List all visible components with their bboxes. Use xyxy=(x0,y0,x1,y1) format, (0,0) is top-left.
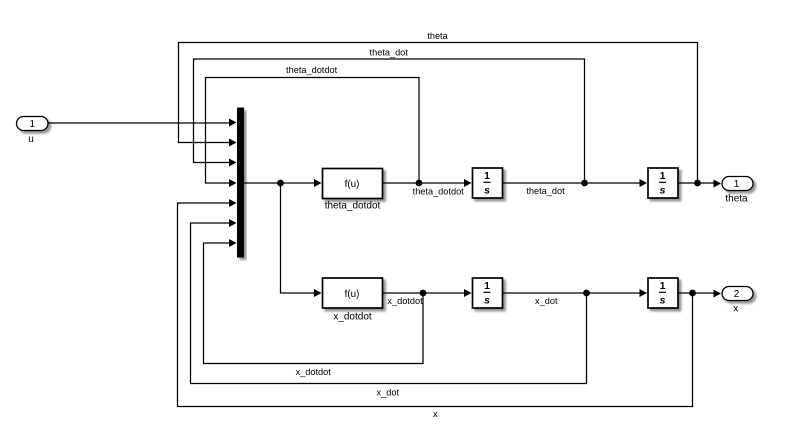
svg-text:theta_dotdot: theta_dotdot xyxy=(286,65,338,75)
svg-text:theta: theta xyxy=(427,31,448,41)
svg-text:x_dotdot: x_dotdot xyxy=(387,296,423,306)
arrowhead into integrator1 xyxy=(464,179,472,187)
output port Out2 xyxy=(722,287,753,301)
svg-text:1: 1 xyxy=(660,280,666,292)
arrowhead mux input 7 xyxy=(229,239,237,247)
arrowhead mux input 6 xyxy=(229,219,237,227)
junction dot node theta_dotdot xyxy=(416,180,423,187)
wire u to mux xyxy=(49,122,231,124)
wire theta_dotdot feedback xyxy=(206,78,420,184)
mux block xyxy=(237,108,244,258)
arrowhead into out2 xyxy=(714,290,722,298)
junction dot node x xyxy=(689,290,696,297)
arrowhead into out1 xyxy=(714,180,722,188)
junction dot mux output branch xyxy=(277,180,284,187)
arrowhead mux input 4 xyxy=(229,179,237,187)
input port In1 xyxy=(17,117,49,131)
svg-text:s: s xyxy=(660,295,666,307)
svg-text:theta_dot: theta_dot xyxy=(526,186,565,196)
svg-text:theta: theta xyxy=(725,194,748,205)
svg-text:x_dotdot: x_dotdot xyxy=(296,367,332,377)
arrowhead mux input 1 xyxy=(229,119,237,127)
wire mux output row1 xyxy=(244,182,315,184)
wire theta_dot feedback xyxy=(194,59,585,183)
wire x feedback xyxy=(178,203,693,407)
integrator block U3 (1/s) xyxy=(473,278,503,308)
svg-text:f(u): f(u) xyxy=(345,289,360,300)
wire x_dot feedback xyxy=(191,223,587,384)
wire branch down to x_dotdot fcn xyxy=(281,183,316,293)
svg-text:u: u xyxy=(28,134,34,145)
wire theta feedback xyxy=(179,43,698,184)
arrowhead into integrator3 xyxy=(464,289,472,297)
svg-text:x_dot: x_dot xyxy=(535,296,558,306)
wire integrator4 to out2 xyxy=(678,292,715,294)
svg-text:theta_dot: theta_dot xyxy=(370,48,409,58)
wire fcn2 to integrator3 xyxy=(383,292,466,294)
junction dot node theta_dot xyxy=(581,180,588,187)
svg-text:x_dotdot: x_dotdot xyxy=(333,312,372,323)
svg-text:x: x xyxy=(733,303,738,314)
arrowhead mux input 3 xyxy=(229,159,237,167)
fcn block x_dotdot xyxy=(323,278,383,308)
svg-text:s: s xyxy=(484,185,490,197)
junction dot node theta xyxy=(694,180,701,187)
wire integrator3 to integrator4 xyxy=(503,292,642,294)
arrowhead into integrator4 xyxy=(640,289,648,297)
svg-text:1: 1 xyxy=(484,170,490,182)
svg-text:s: s xyxy=(660,185,666,197)
svg-text:1: 1 xyxy=(484,280,490,292)
wire x_dotdot feedback xyxy=(204,243,424,364)
svg-text:x_dot: x_dot xyxy=(377,388,400,398)
integrator block U2 (1/s) xyxy=(648,168,678,198)
wire integrator1 to integrator2 xyxy=(503,182,642,184)
integrator block U4 (1/s) xyxy=(648,278,678,308)
output port Out1 xyxy=(722,177,753,191)
svg-text:1: 1 xyxy=(30,119,36,130)
svg-text:x: x xyxy=(433,409,438,419)
svg-text:f(u): f(u) xyxy=(345,179,360,190)
arrowhead mux input 5 xyxy=(229,199,237,207)
svg-text:2: 2 xyxy=(734,289,740,300)
arrowhead into integrator2 xyxy=(640,179,648,187)
svg-text:theta_dotdot: theta_dotdot xyxy=(413,186,465,196)
arrowhead mux input 2 xyxy=(229,139,237,147)
svg-text:1: 1 xyxy=(734,179,740,190)
fcn block theta_dotdot xyxy=(323,169,383,199)
wire integrator2 to out1 xyxy=(678,182,715,184)
svg-text:theta_dotdot: theta_dotdot xyxy=(325,201,381,212)
junction dot node x_dotdot xyxy=(420,290,427,297)
integrator block U1 (1/s) xyxy=(473,168,503,198)
arrowhead into fcn theta_dotdot xyxy=(314,179,322,187)
svg-text:1: 1 xyxy=(660,170,666,182)
arrowhead into fcn x_dotdot xyxy=(314,289,322,297)
junction dot node x_dot xyxy=(583,290,590,297)
svg-text:s: s xyxy=(484,295,490,307)
wire fcn1 to integrator1 xyxy=(383,182,466,184)
